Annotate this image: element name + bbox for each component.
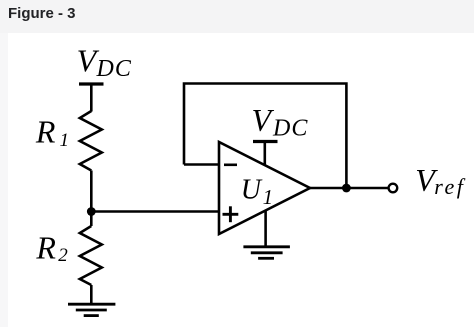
- svg-text:1: 1: [263, 185, 274, 209]
- svg-text:1: 1: [60, 130, 70, 151]
- svg-text:V: V: [252, 102, 275, 138]
- svg-text:R: R: [35, 113, 56, 149]
- svg-text:2: 2: [58, 245, 68, 266]
- svg-text:U: U: [241, 175, 263, 206]
- svg-text:R: R: [35, 229, 56, 265]
- svg-text:ref: ref: [434, 174, 466, 199]
- svg-text:DC: DC: [272, 116, 308, 142]
- svg-text:DC: DC: [96, 56, 132, 82]
